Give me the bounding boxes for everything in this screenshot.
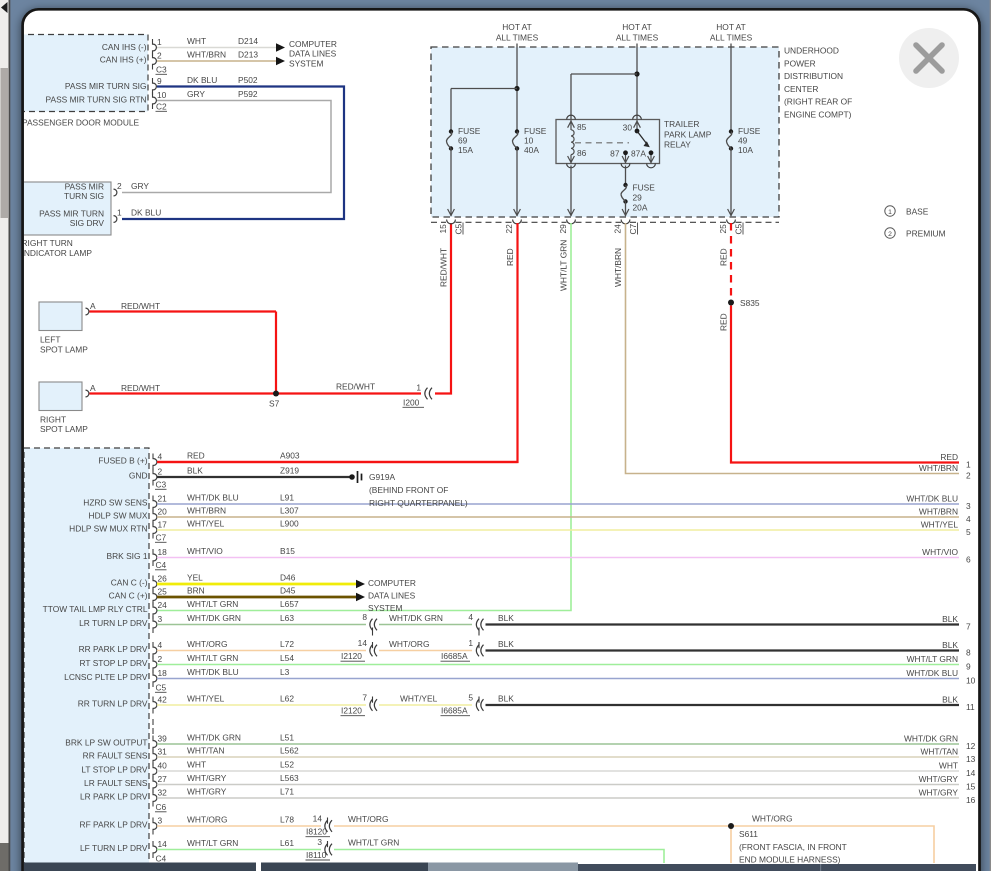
svg-text:WHT/BRN: WHT/BRN <box>187 506 226 516</box>
svg-text:D214: D214 <box>238 36 258 46</box>
svg-text:CAN IHS (-): CAN IHS (-) <box>102 42 147 52</box>
svg-text:2: 2 <box>158 466 163 476</box>
right exit 12 <box>904 733 976 751</box>
svg-text:BRK SIG 1: BRK SIG 1 <box>107 551 148 561</box>
svg-text:WHT: WHT <box>187 760 206 770</box>
wire BRN D45 <box>157 586 356 597</box>
splice S835 <box>728 298 760 308</box>
svg-text:6: 6 <box>966 555 971 565</box>
svg-text:14: 14 <box>358 638 368 648</box>
right exit 7 BLK <box>942 614 971 632</box>
wire fuse 10 to pin 22 <box>514 149 521 217</box>
relay switch blade to 87A <box>637 131 650 147</box>
svg-text:LR TURN LP DRV: LR TURN LP DRV <box>79 618 148 628</box>
svg-text:C3: C3 <box>156 65 167 75</box>
ground G919A <box>349 471 468 508</box>
svg-text:HOT AT: HOT AT <box>502 22 531 32</box>
svg-text:5: 5 <box>468 693 473 703</box>
module: rear lamp module connector box (dashed) <box>24 448 149 871</box>
splice S7 <box>269 391 280 409</box>
svg-text:C5: C5 <box>156 683 167 693</box>
wire WHT/YEL L900 <box>157 519 959 530</box>
svg-text:HOT AT: HOT AT <box>716 22 745 32</box>
svg-text:DISTRIBUTION: DISTRIBUTION <box>784 71 843 81</box>
svg-text:3: 3 <box>158 815 163 825</box>
svg-text:25: 25 <box>158 586 168 596</box>
wire BLK row 8 <box>486 639 960 651</box>
svg-text:RIGHT QUARTERPANEL): RIGHT QUARTERPANEL) <box>369 498 468 508</box>
pin 4 FUSED B (+) <box>98 451 162 470</box>
svg-text:L61: L61 <box>280 838 294 848</box>
svg-text:21: 21 <box>158 493 168 503</box>
right exit 3 <box>906 493 971 511</box>
wire relay 87 to fuse 29 <box>625 166 627 186</box>
svg-text:26: 26 <box>158 573 168 583</box>
relay pin 87 <box>610 149 630 168</box>
svg-text:POWER: POWER <box>784 58 816 68</box>
svg-text:LF TURN LP DRV: LF TURN LP DRV <box>80 843 148 853</box>
wire WHT/GRY L71 <box>157 787 959 798</box>
svg-text:COMPUTER: COMPUTER <box>289 39 337 49</box>
wire RED/WHT right spot lamp to S7 and I200 <box>90 312 422 394</box>
right exit 10 <box>906 668 975 686</box>
svg-text:BASE: BASE <box>906 206 929 216</box>
svg-text:8: 8 <box>362 612 367 622</box>
svg-text:2: 2 <box>158 654 163 664</box>
svg-text:WHT/DK GRN: WHT/DK GRN <box>187 613 241 623</box>
svg-text:PASS MIR TURN: PASS MIR TURN <box>39 208 104 218</box>
svg-text:WHT/DK GRN: WHT/DK GRN <box>187 733 241 743</box>
pin 32 LR PARK LP DRV <box>80 787 167 806</box>
svg-text:10: 10 <box>524 136 534 146</box>
left window strip <box>0 0 10 871</box>
svg-text:WHT: WHT <box>939 760 958 770</box>
svg-text:WHT/DK GRN: WHT/DK GRN <box>904 733 958 743</box>
svg-text:WHT/BRN: WHT/BRN <box>187 50 226 60</box>
svg-text:WHT/BRN: WHT/BRN <box>919 463 958 473</box>
pin 22 UPDC <box>504 220 521 234</box>
wire WHT/LT GRN down <box>334 838 664 864</box>
wire WHT D214 <box>157 36 276 48</box>
svg-text:29: 29 <box>558 224 568 234</box>
svg-text:TRAILER: TRAILER <box>664 119 699 129</box>
right exit 13 <box>920 746 975 764</box>
svg-text:WHT/LT GRN: WHT/LT GRN <box>187 599 238 609</box>
svg-text:4: 4 <box>158 451 163 461</box>
pin 3 LR TURN LP DRV <box>79 614 162 633</box>
svg-text:40A: 40A <box>524 145 539 155</box>
svg-text:30: 30 <box>623 123 633 133</box>
svg-text:WHT/BRN: WHT/BRN <box>919 506 958 516</box>
svg-text:WHT/LT GRN: WHT/LT GRN <box>559 240 569 291</box>
svg-text:9: 9 <box>157 76 162 86</box>
relay coil <box>571 130 574 155</box>
svg-text:RED/WHT: RED/WHT <box>439 248 449 287</box>
svg-text:CAN C (+): CAN C (+) <box>109 590 148 600</box>
svg-text:25: 25 <box>718 224 728 234</box>
wire feed 2 to relay pins 85/30 <box>571 47 640 120</box>
fuse 29 20A <box>621 182 655 212</box>
svg-text:4: 4 <box>468 612 473 622</box>
svg-text:14: 14 <box>313 814 323 824</box>
svg-text:BLK: BLK <box>498 694 514 704</box>
svg-text:C6: C6 <box>156 802 167 812</box>
svg-text:RED/WHT: RED/WHT <box>121 383 160 393</box>
wire WHT/ORG L78 <box>157 815 321 826</box>
svg-text:L562: L562 <box>280 746 299 756</box>
svg-text:I6685A: I6685A <box>441 706 468 716</box>
connector C3 <box>156 65 168 75</box>
svg-text:DK BLU: DK BLU <box>187 75 217 85</box>
svg-text:ALL TIMES: ALL TIMES <box>710 33 753 43</box>
svg-text:9: 9 <box>966 662 971 672</box>
wire WHT/VIO B15 <box>157 546 959 557</box>
pin 29 UPDC <box>558 220 575 234</box>
right exit 5 <box>921 519 971 537</box>
svg-text:RIGHT: RIGHT <box>40 414 66 424</box>
svg-text:FUSED B (+): FUSED B (+) <box>98 455 147 465</box>
connector C7 (rear) <box>155 533 167 543</box>
svg-text:WHT/ORG: WHT/ORG <box>187 639 227 649</box>
right exit 8 BLK <box>942 640 971 658</box>
pin 40 LT STOP LP DRV <box>81 760 167 779</box>
svg-text:15: 15 <box>438 224 448 234</box>
wire WHT/LT GRN L61 <box>157 838 321 849</box>
pin 10 PASSENGER DOOR MODULE <box>153 90 167 109</box>
relay K1: TRAILER PARK LAMP RELAY <box>556 119 712 164</box>
wire RED/WHT to fuse 69 output <box>336 223 451 394</box>
svg-text:7: 7 <box>966 622 971 632</box>
right exit 14 <box>939 760 976 778</box>
svg-text:L63: L63 <box>280 613 294 623</box>
pin 17 HDLP SW MUX RTN <box>69 519 167 538</box>
wire relay 86 to pin 29 <box>568 166 575 217</box>
wire WHT/ORG to S611 and down <box>334 814 934 864</box>
svg-text:RT STOP LP DRV: RT STOP LP DRV <box>80 658 148 668</box>
svg-text:RED: RED <box>505 248 515 266</box>
svg-text:C7: C7 <box>628 223 638 234</box>
svg-text:12: 12 <box>966 741 976 751</box>
svg-text:BLK: BLK <box>498 639 514 649</box>
svg-text:5: 5 <box>966 527 971 537</box>
svg-text:PASS MIR TURN SIG RTN: PASS MIR TURN SIG RTN <box>46 95 147 105</box>
right exit 15 <box>919 774 976 792</box>
svg-text:SPOT LAMP: SPOT LAMP <box>40 424 88 434</box>
pin 3 RF PARK LP DRV <box>80 815 163 834</box>
svg-text:L62: L62 <box>280 694 294 704</box>
svg-text:3: 3 <box>317 837 322 847</box>
svg-text:LR PARK LP DRV: LR PARK LP DRV <box>80 791 148 801</box>
splice S611 <box>728 823 847 865</box>
svg-text:RR TURN LP DRV: RR TURN LP DRV <box>78 698 148 708</box>
right exit 9 <box>907 654 971 672</box>
wire BLK Z919 <box>157 466 352 477</box>
connector 14 I8120 <box>306 814 333 837</box>
connector C2 <box>156 102 168 112</box>
svg-text:PARK LAMP: PARK LAMP <box>664 129 712 139</box>
svg-text:11: 11 <box>966 702 975 712</box>
module: RIGHT SPOT LAMP <box>39 382 88 434</box>
connector I200 <box>403 383 433 408</box>
wire WHT/BRN pin24 down to right edge row 2 <box>613 223 959 474</box>
wire WHT/YEL mid <box>379 694 472 706</box>
svg-text:WHT/GRY: WHT/GRY <box>187 773 227 783</box>
svg-text:WHT/GRY: WHT/GRY <box>187 787 227 797</box>
pin 25 CAN C (+) <box>109 586 168 605</box>
svg-text:RR FAULT SENS: RR FAULT SENS <box>83 750 148 760</box>
svg-text:FUSE: FUSE <box>524 126 547 136</box>
wire WHT/DK BLU L3 <box>157 667 959 678</box>
svg-text:L563: L563 <box>280 773 299 783</box>
svg-text:S7: S7 <box>269 399 280 409</box>
svg-text:WHT/BRN: WHT/BRN <box>613 248 623 287</box>
svg-text:20: 20 <box>158 506 168 516</box>
wire feed 1 inside UPDC with branch junction <box>451 47 520 132</box>
svg-text:WHT/ORG: WHT/ORG <box>348 814 388 824</box>
svg-text:WHT/VIO: WHT/VIO <box>922 547 958 557</box>
svg-text:87A: 87A <box>631 149 646 159</box>
svg-text:13: 13 <box>966 754 976 764</box>
connector 8 (I2120) <box>362 612 377 636</box>
relay pin 87A <box>631 149 655 168</box>
svg-text:14: 14 <box>158 839 168 849</box>
svg-text:RIGHT TURN: RIGHT TURN <box>22 238 73 248</box>
module: RIGHT TURN INDICATOR LAMP <box>22 182 112 259</box>
right exit 16 <box>919 787 976 805</box>
svg-text:A: A <box>90 383 96 393</box>
svg-text:L72: L72 <box>280 639 294 649</box>
bottom bar <box>24 863 976 871</box>
svg-text:WHT/LT GRN: WHT/LT GRN <box>907 654 958 664</box>
connector 4 (I6685A) <box>468 612 483 636</box>
svg-text:49: 49 <box>738 136 748 146</box>
svg-text:TURN SIG: TURN SIG <box>64 191 104 201</box>
svg-text:BLK: BLK <box>942 694 958 704</box>
svg-text:2: 2 <box>888 231 892 238</box>
svg-text:GND: GND <box>129 470 148 480</box>
svg-text:16: 16 <box>966 795 976 805</box>
wire WHT/DK GRN L63 <box>157 613 366 624</box>
wire WHT/LT GRN pin29 down to TTOW row <box>157 223 571 611</box>
svg-text:85: 85 <box>577 122 587 132</box>
wire RED A903 <box>157 451 518 462</box>
svg-text:69: 69 <box>458 136 468 146</box>
svg-text:L51: L51 <box>280 733 294 743</box>
svg-text:86: 86 <box>577 148 587 158</box>
svg-text:FUSE: FUSE <box>458 126 481 136</box>
svg-text:D46: D46 <box>280 573 296 583</box>
pin 31 RR FAULT SENS <box>83 746 168 765</box>
svg-text:2: 2 <box>117 181 122 191</box>
svg-text:A: A <box>90 301 96 311</box>
svg-text:WHT/LT GRN: WHT/LT GRN <box>348 838 399 848</box>
pin 26 CAN C (-) <box>111 573 167 592</box>
svg-text:CAN C (-): CAN C (-) <box>111 577 148 587</box>
svg-text:1: 1 <box>966 460 971 470</box>
pin 25 UPDC <box>718 220 744 235</box>
wire WHT/GRY L563 <box>157 773 959 784</box>
svg-text:15: 15 <box>966 782 976 792</box>
wire WHT/TAN L562 <box>157 746 959 757</box>
svg-text:I8120: I8120 <box>306 827 327 837</box>
svg-text:CAN IHS (+): CAN IHS (+) <box>100 55 147 65</box>
pin 2 PASSENGER DOOR MODULE <box>153 50 163 69</box>
right exit 2 WHT/BRN <box>919 463 971 481</box>
svg-text:(RIGHT REAR OF: (RIGHT REAR OF <box>784 97 852 107</box>
pin 1 PASSENGER DOOR MODULE <box>153 37 163 56</box>
svg-text:L900: L900 <box>280 519 299 529</box>
svg-text:FUSE: FUSE <box>738 126 761 136</box>
svg-text:END MODULE HARNESS): END MODULE HARNESS) <box>739 855 841 865</box>
svg-text:PASS MIR: PASS MIR <box>65 182 104 192</box>
fuse 10 40A <box>512 126 546 155</box>
svg-text:L71: L71 <box>280 787 294 797</box>
svg-text:WHT/DK BLU: WHT/DK BLU <box>187 493 239 503</box>
svg-text:14: 14 <box>966 768 976 778</box>
svg-text:C5: C5 <box>734 223 744 234</box>
svg-text:RED: RED <box>719 313 729 331</box>
module: LEFT SPOT LAMP <box>39 302 88 354</box>
connector 7 I2120 <box>341 693 378 716</box>
svg-text:GRY: GRY <box>187 89 205 99</box>
svg-text:YEL: YEL <box>187 573 203 583</box>
svg-text:ALL TIMES: ALL TIMES <box>616 33 659 43</box>
pin 18 LCNSC PLTE LP DRV <box>64 668 167 687</box>
svg-text:I200: I200 <box>403 397 420 407</box>
svg-text:L91: L91 <box>280 493 294 503</box>
svg-text:Z919: Z919 <box>280 466 299 476</box>
fuse 49 10A <box>726 47 760 155</box>
pin 9 PASSENGER DOOR MODULE <box>153 76 163 95</box>
svg-text:L52: L52 <box>280 760 294 770</box>
svg-text:WHT/YEL: WHT/YEL <box>187 694 225 704</box>
svg-text:COMPUTER: COMPUTER <box>368 578 416 588</box>
svg-text:P592: P592 <box>238 89 258 99</box>
svg-text:C4: C4 <box>156 560 167 570</box>
svg-text:BLK: BLK <box>942 614 958 624</box>
svg-text:C5: C5 <box>454 223 464 234</box>
right exit 4 <box>919 506 971 524</box>
svg-text:18: 18 <box>158 547 168 557</box>
relay pin 86 (coil -) <box>567 148 587 168</box>
legend: (1) BASE <box>885 206 929 217</box>
relay internal wire stubs <box>570 120 572 131</box>
svg-text:BRK LP SW OUTPUT: BRK LP SW OUTPUT <box>65 737 147 747</box>
wire BLK row 7 <box>486 613 960 625</box>
power feed: HOT AT ALL TIMES <box>616 22 659 47</box>
svg-text:WHT/TAN: WHT/TAN <box>187 746 225 756</box>
wire WHT/ORG mid <box>379 639 472 651</box>
wire WHT/LT GRN L657 <box>187 599 299 609</box>
power feed: HOT AT ALL TIMES <box>496 22 539 47</box>
svg-text:7: 7 <box>362 693 367 703</box>
svg-text:SPOT LAMP: SPOT LAMP <box>40 344 88 354</box>
svg-text:B15: B15 <box>280 546 295 556</box>
svg-text:WHT: WHT <box>187 36 206 46</box>
legend: (2) PREMIUM <box>885 228 946 239</box>
svg-text:WHT/DK GRN: WHT/DK GRN <box>389 613 443 623</box>
svg-text:1: 1 <box>416 383 421 393</box>
wire RED pin22 down to FUSED B(+) row <box>157 223 518 462</box>
svg-text:1: 1 <box>468 638 473 648</box>
svg-text:WHT/ORG: WHT/ORG <box>389 639 429 649</box>
svg-text:UNDERHOOD: UNDERHOOD <box>784 46 839 56</box>
svg-text:RED: RED <box>187 451 205 461</box>
svg-text:L657: L657 <box>280 599 299 609</box>
wire fuse 49 to pin 25 <box>728 149 735 217</box>
svg-text:RED/WHT: RED/WHT <box>336 382 375 392</box>
svg-text:1: 1 <box>117 208 122 218</box>
wire WHT/DK BLU L91 <box>157 493 959 504</box>
svg-text:PASS MIR TURN SIG: PASS MIR TURN SIG <box>65 81 147 91</box>
svg-text:LT STOP LP DRV: LT STOP LP DRV <box>81 764 148 774</box>
svg-text:HDLP SW MUX: HDLP SW MUX <box>89 510 148 520</box>
pin 2 RT STOP LP DRV <box>80 654 163 673</box>
svg-text:10: 10 <box>966 676 976 686</box>
pin 42 RR TURN LP DRV <box>78 694 167 713</box>
svg-text:31: 31 <box>158 746 168 756</box>
svg-text:WHT/LT GRN: WHT/LT GRN <box>187 838 238 848</box>
relay pin 85 (coil +) <box>567 115 587 132</box>
svg-text:C3: C3 <box>156 480 167 490</box>
wire fuse 69 to pin 15 <box>448 149 455 217</box>
svg-text:32: 32 <box>158 787 168 797</box>
svg-text:I2120: I2120 <box>341 651 362 661</box>
wire DK BLU P502 <box>122 75 344 219</box>
svg-text:WHT/YEL: WHT/YEL <box>921 519 959 529</box>
svg-text:D45: D45 <box>280 586 296 596</box>
connector C4 (rear) <box>155 560 167 570</box>
wire BLK row 11 <box>486 694 960 706</box>
svg-text:FUSE: FUSE <box>633 182 656 192</box>
svg-text:DK BLU: DK BLU <box>131 208 161 218</box>
wire WHT/DK GRN mid <box>379 613 472 625</box>
pin 20 HDLP SW MUX <box>89 506 168 525</box>
svg-text:(BEHIND FRONT OF: (BEHIND FRONT OF <box>369 485 448 495</box>
right exit 6 <box>922 547 971 565</box>
svg-text:HDLP SW MUX RTN: HDLP SW MUX RTN <box>69 523 147 533</box>
svg-text:WHT/LT GRN: WHT/LT GRN <box>187 653 238 663</box>
node: COMPUTER DATA LINES SYSTEM (top) <box>276 39 337 68</box>
svg-text:HOT AT: HOT AT <box>622 22 651 32</box>
svg-text:LR FAULT SENS: LR FAULT SENS <box>84 778 148 788</box>
svg-text:27: 27 <box>158 774 168 784</box>
svg-text:INDICATOR LAMP: INDICATOR LAMP <box>22 248 93 258</box>
svg-text:3: 3 <box>158 614 163 624</box>
svg-text:C4: C4 <box>156 854 167 864</box>
svg-text:4: 4 <box>158 640 163 650</box>
svg-text:17: 17 <box>158 519 168 529</box>
svg-text:L3: L3 <box>280 667 290 677</box>
fuse 69 15A <box>446 126 480 155</box>
svg-text:3: 3 <box>966 501 971 511</box>
svg-text:39: 39 <box>158 733 168 743</box>
svg-text:18: 18 <box>158 668 168 678</box>
wire RED/WHT left spot lamp <box>90 301 277 311</box>
pin 27 LR FAULT SENS <box>84 774 167 793</box>
wire RED (fused) pin25 dashed to S835 <box>719 223 732 300</box>
connector C5 (rear) <box>155 683 167 693</box>
svg-text:I8110: I8110 <box>306 850 327 860</box>
right exit 11 BLK <box>942 694 975 712</box>
pin 14 LF TURN LP DRV <box>80 839 167 858</box>
svg-text:ALL TIMES: ALL TIMES <box>496 33 539 43</box>
svg-text:WHT/DK BLU: WHT/DK BLU <box>187 667 239 677</box>
svg-text:15A: 15A <box>458 145 473 155</box>
svg-text:SIG DRV: SIG DRV <box>70 218 105 228</box>
svg-text:2: 2 <box>157 50 162 60</box>
svg-text:WHT/TAN: WHT/TAN <box>920 746 958 756</box>
